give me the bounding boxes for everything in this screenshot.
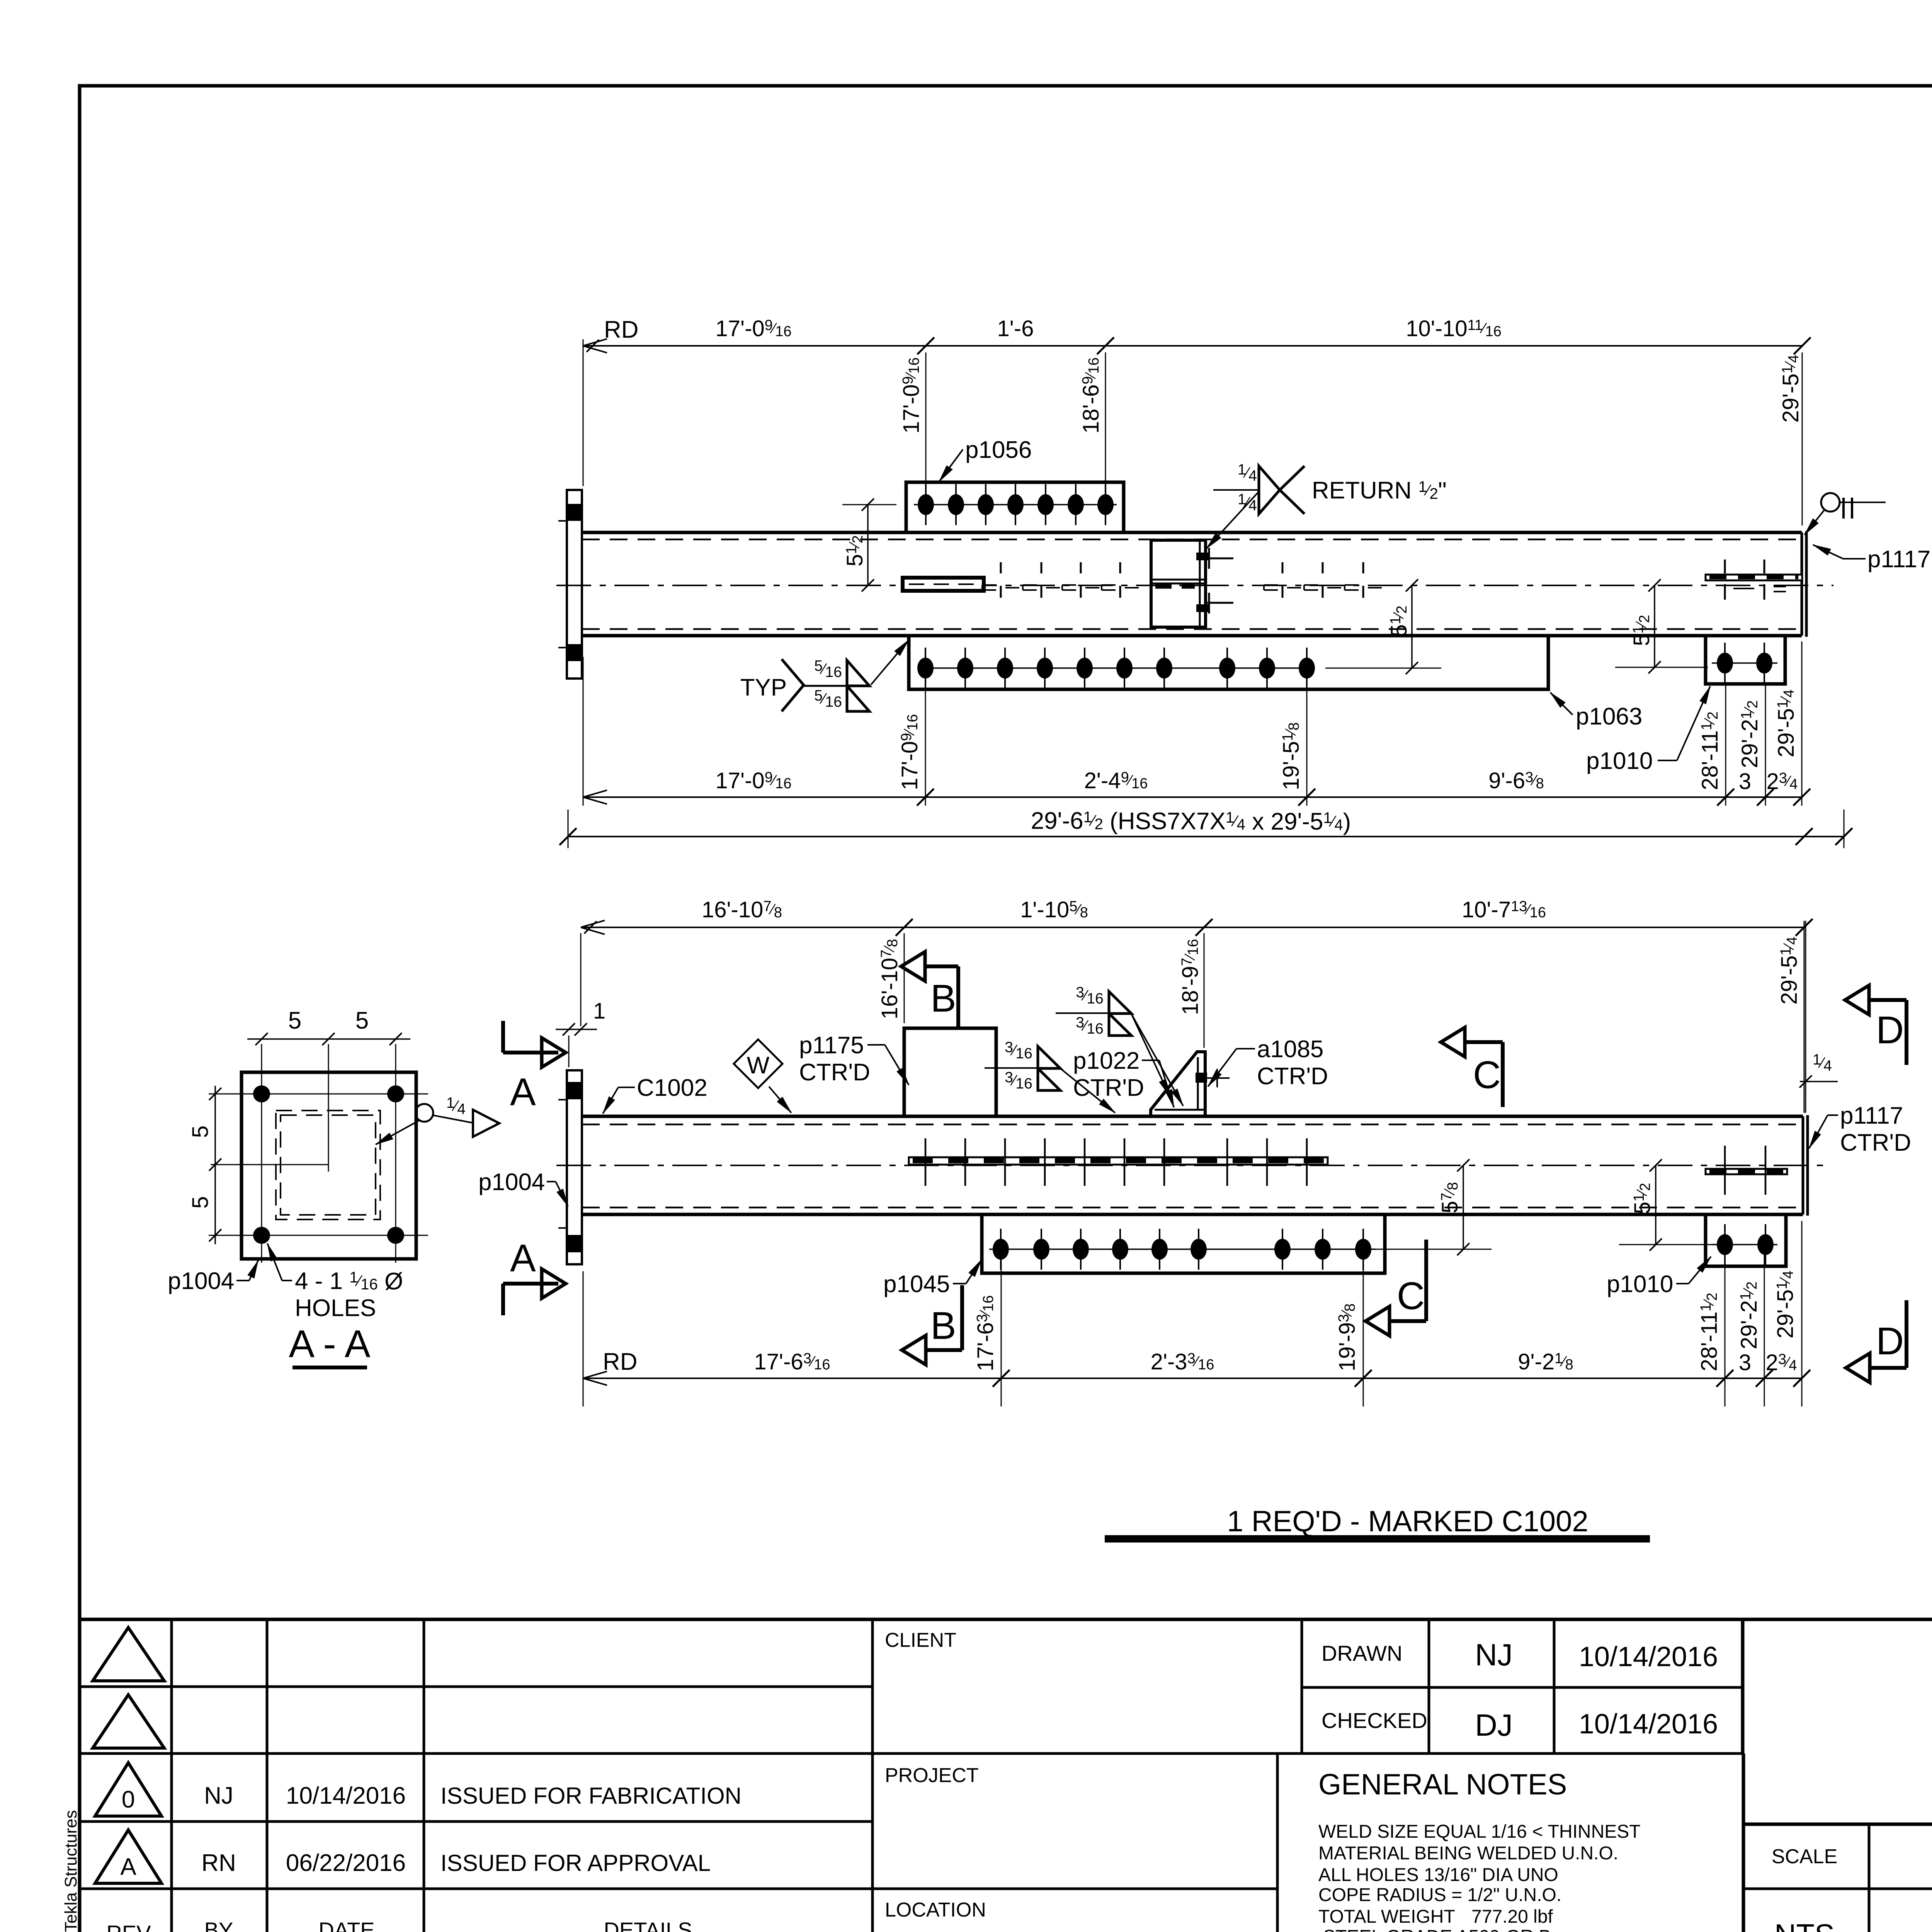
top view: flange plate p1063 <box>909 636 1548 689</box>
front view top dimension line 16'-10 7/8 / 1'-10 5/8 / 10'-7 13/16 <box>581 919 1813 1113</box>
label p1045 <box>883 1260 981 1298</box>
svg-text:p1010: p1010 <box>1586 748 1653 774</box>
top view dimension line RD / 17'-0 9/16 / 1'-6 / 10'-10 11/16 <box>583 337 1811 526</box>
svg-text:A - A: A - A <box>289 1322 371 1366</box>
dim text 17'-0 9/16 (top) <box>716 316 792 341</box>
front view: plate p1010 <box>1706 1214 1786 1266</box>
front view: HSS member C1002 body outline <box>582 1116 1803 1214</box>
dim text 10'-10 11/16 <box>1406 316 1502 341</box>
checked row <box>1321 1708 1718 1742</box>
dim 5 1/2 at p1010 (front view) <box>1619 1159 1712 1251</box>
section arrow B (bottom) <box>902 1285 962 1365</box>
svg-text:10/14/2016: 10/14/2016 <box>286 1782 406 1809</box>
front view: clip angle a1085 <box>1151 1052 1230 1115</box>
svg-text:RD: RD <box>603 1349 638 1375</box>
revision triangle row 2 <box>93 1695 164 1748</box>
svg-text:p1117: p1117 <box>1867 546 1930 573</box>
revision row A entries <box>201 1850 711 1876</box>
svg-text:TYP: TYP <box>740 674 787 701</box>
section A-A title <box>289 1322 371 1369</box>
svg-text:5: 5 <box>355 1007 369 1034</box>
svg-text:CTR'D: CTR'D <box>1073 1075 1144 1101</box>
dim 1/4 at p1117 <box>1799 1051 1838 1088</box>
section A-A weld all-around 1/4 symbol <box>376 1095 499 1145</box>
svg-text:B: B <box>930 1304 956 1347</box>
required-marked note <box>1105 1505 1650 1543</box>
dim 5 1/2 at p1010 (top view) <box>1615 579 1708 673</box>
dim text 17'-6 3/16 <box>754 1349 830 1374</box>
rotated dim 19'-5 1/8 <box>1279 722 1304 790</box>
weld symbol TYP 5/16 5/16 <box>740 640 909 711</box>
svg-text:D: D <box>1876 1320 1904 1363</box>
overall dimension 29'-6 1/2 (HSS7X7X1/4 x 29'-5 1/4) <box>560 808 1852 848</box>
label p1063 <box>1550 692 1642 730</box>
svg-text:HOLES: HOLES <box>295 1295 376 1321</box>
dim text 2'-4 9/16 <box>1084 768 1148 793</box>
label p1022 CTR'D <box>1073 1048 1174 1107</box>
svg-text:CHECKED: CHECKED <box>1321 1708 1427 1733</box>
revision triangle row 1 <box>93 1628 164 1681</box>
svg-text:COPE RADIUS = 1/2" U.N.O.: COPE RADIUS = 1/2" U.N.O. <box>1318 1885 1561 1905</box>
revision header row <box>106 1918 692 1932</box>
front view: end cap plate p1117 edge <box>1803 1115 1808 1216</box>
weld symbol 3/16 3/16 left <box>985 1039 1115 1113</box>
front view: plate p1045 <box>982 1214 1385 1273</box>
dim text 1'-10 5/8 <box>1020 897 1088 922</box>
top view: hidden clip a1085/p1022 <box>1151 540 1233 627</box>
svg-text:777.20 lbf: 777.20 lbf <box>1471 1906 1553 1927</box>
weld symbol 3/16 3/16 upper <box>1056 984 1183 1106</box>
front view: member centerline <box>556 1165 1832 1166</box>
svg-text:1: 1 <box>593 998 605 1024</box>
label a1085 CTR'D <box>1208 1036 1328 1090</box>
rotated dim 17'-0 9/16 <box>899 357 924 434</box>
section arrow D (top) <box>1845 985 1906 1065</box>
dim 5 7/8 at p1045 <box>1376 1159 1492 1255</box>
svg-text:5: 5 <box>188 1126 213 1138</box>
section A-A left dimension 5 / 5 <box>188 1086 221 1244</box>
rotated dim 17'-6 3/16 (lower) <box>973 1295 998 1371</box>
tekla structures watermark <box>61 1810 80 1932</box>
top view: member centerline <box>556 585 1833 586</box>
svg-text:NTS: NTS <box>1774 1918 1835 1932</box>
top view: hidden bolt ticks on centerline <box>982 562 1382 598</box>
dim 5 1/2 at p1056 <box>842 498 896 592</box>
general notes <box>1318 1768 1641 1932</box>
weld symbol 1/4 1/4 RETURN 1/2" <box>1206 461 1447 549</box>
svg-text:p1022: p1022 <box>1073 1048 1139 1074</box>
top view: end plate p1004 (edge-on) <box>558 490 582 679</box>
scale value NTS <box>1774 1918 1835 1932</box>
front view: plate p1175 <box>904 1028 996 1116</box>
front view: hidden side plates bar (p1056/p1063) <box>909 1138 1328 1186</box>
svg-text:CLIENT: CLIENT <box>885 1629 956 1651</box>
svg-text:DATE: DATE <box>318 1918 374 1932</box>
rotated dim 29'-5 1/4 (front lower) <box>1773 1270 1798 1338</box>
dim text 17'-0 9/16 (bottom) <box>716 768 792 793</box>
dim 5 1/2 at p1063 <box>1325 579 1441 674</box>
dim text 3 <box>1739 769 1751 794</box>
rotated dim 29'-2 1/2 <box>1737 700 1762 768</box>
svg-text:ISSUED FOR FABRICATION: ISSUED FOR FABRICATION <box>440 1783 742 1809</box>
label p1056 <box>939 437 1032 482</box>
svg-text:1 REQ'D - MARKED C1002: 1 REQ'D - MARKED C1002 <box>1227 1505 1588 1538</box>
svg-text:1'-6: 1'-6 <box>997 316 1034 341</box>
svg-text:10/14/2016: 10/14/2016 <box>1579 1641 1718 1672</box>
svg-text:ISSUED FOR APPROVAL: ISSUED FOR APPROVAL <box>440 1850 711 1876</box>
dim text 2 3/4 (front) <box>1766 1350 1797 1375</box>
drawn row <box>1321 1638 1718 1672</box>
svg-text:C1002: C1002 <box>637 1075 707 1101</box>
dim text 1'-6 <box>997 316 1034 341</box>
label p1175 CTR'D <box>799 1032 909 1086</box>
svg-text:Tekla Structures: Tekla Structures <box>61 1810 80 1932</box>
svg-text:p1010: p1010 <box>1607 1271 1673 1298</box>
rotated dim 29'-5 1/4 (top right) <box>1778 355 1803 423</box>
svg-text:3: 3 <box>1739 769 1751 794</box>
svg-text:4 - 1 1⁄16 Ø: 4 - 1 1⁄16 Ø <box>295 1268 403 1295</box>
svg-text:p1063: p1063 <box>1576 703 1642 730</box>
rotated dim 28'-11 1/2 (front) <box>1697 1293 1722 1371</box>
rotated dim 28'-11 1/2 <box>1697 711 1723 790</box>
rotated dim 16'-10 7/8 <box>877 939 902 1019</box>
front view bottom dimension line RD / 17'-6 3/16 / 2'-3 3/16 / 9'-2 1/8 <box>583 1221 1810 1406</box>
svg-text:ALL HOLES 13/16" DIA UNO: ALL HOLES 13/16" DIA UNO <box>1318 1865 1558 1885</box>
top view: end cap plate p1117 edge <box>1802 531 1806 637</box>
svg-text:p1175: p1175 <box>799 1032 864 1059</box>
svg-text:NJ: NJ <box>204 1782 233 1809</box>
dim text RD (front) <box>603 1349 638 1375</box>
svg-text:GENERAL NOTES: GENERAL NOTES <box>1318 1768 1567 1801</box>
top view: hidden plate p1175 bar <box>903 578 984 591</box>
dim text 9'-6 3/8 <box>1488 768 1544 793</box>
title block grid <box>80 1619 1932 1932</box>
rotated dim 18'-6 9/16 <box>1078 357 1104 434</box>
W weld diamond <box>734 1039 791 1113</box>
top view: hidden p1010 bar and bolt ticks <box>1706 560 1802 600</box>
svg-text:CTR'D: CTR'D <box>799 1059 870 1086</box>
svg-text:DJ: DJ <box>1475 1708 1513 1742</box>
svg-text:D: D <box>1876 1009 1904 1052</box>
label p1010 (front view) <box>1607 1257 1711 1298</box>
dim text 10'-7 13/16 <box>1462 897 1546 922</box>
svg-text:A: A <box>510 1236 536 1280</box>
svg-text:NJ: NJ <box>1475 1638 1513 1672</box>
location cell <box>885 1899 1122 1932</box>
svg-text:p1117: p1117 <box>1840 1102 1903 1129</box>
label p1010 (top view) <box>1586 686 1710 774</box>
section A-A label p1004 <box>168 1260 258 1294</box>
svg-text:REV: REV <box>106 1921 151 1932</box>
field weld circle at p1117 <box>1804 493 1886 535</box>
section arrow C (bottom) <box>1366 1240 1426 1336</box>
svg-text:TOTAL WEIGHT: TOTAL WEIGHT <box>1318 1906 1455 1927</box>
front view: hidden wall dashed lines <box>582 1124 1803 1207</box>
svg-text:BY: BY <box>204 1918 233 1932</box>
dim text 3 (front) <box>1739 1350 1751 1375</box>
svg-text:A: A <box>510 1070 536 1114</box>
svg-text:RN: RN <box>201 1850 236 1876</box>
client cell <box>885 1629 956 1651</box>
svg-text:WELD SIZE EQUAL 1/16 < THINNES: WELD SIZE EQUAL 1/16 < THINNEST <box>1318 1821 1641 1842</box>
svg-text:CTR'D: CTR'D <box>1257 1063 1328 1090</box>
label p1004 (front view) <box>478 1169 568 1206</box>
svg-text:3: 3 <box>1739 1350 1751 1375</box>
svg-text:MATERIAL BEING WELDED U.N.O.: MATERIAL BEING WELDED U.N.O. <box>1318 1843 1618 1864</box>
revision triangle 0 <box>95 1763 162 1816</box>
section arrow D (bottom) <box>1846 1300 1906 1383</box>
section arrow A (top) <box>503 1021 566 1114</box>
dim text 16'-10 7/8 <box>702 897 782 922</box>
svg-text:DRAWN: DRAWN <box>1321 1641 1402 1665</box>
svg-text:A: A <box>120 1854 136 1880</box>
svg-text:W: W <box>747 1052 770 1079</box>
label p1117 CTR'D <box>1809 1102 1911 1156</box>
svg-text:29'-61⁄2 (HSS7X7X1⁄4 x 29'-51⁄: 29'-61⁄2 (HSS7X7X1⁄4 x 29'-51⁄4) <box>1031 808 1351 835</box>
svg-text:SCALE: SCALE <box>1772 1845 1838 1868</box>
front view: end plate p1004 (edge-on) <box>558 1070 582 1264</box>
svg-text:p1004: p1004 <box>168 1268 234 1294</box>
rotated dim 19'-9 3/8 <box>1335 1303 1360 1371</box>
revision row 0 entries <box>204 1782 742 1809</box>
label C1002 <box>603 1075 707 1114</box>
svg-text:p1056: p1056 <box>965 437 1032 463</box>
top view: hidden wall dashed lines <box>582 539 1802 629</box>
svg-text:C: C <box>1473 1053 1501 1097</box>
rotated dim 29'-5 1/4 (front top) <box>1777 937 1802 1005</box>
svg-text:p1045: p1045 <box>883 1271 950 1298</box>
label p1117 (top view) <box>1813 545 1930 573</box>
dim text 2'-3 3/16 <box>1151 1349 1214 1374</box>
scale job dwg rev header labels <box>1772 1845 1932 1868</box>
svg-text:5: 5 <box>188 1196 213 1209</box>
top view bottom dimension line 17'-0 9/16 / 2'-4 9/16 / 9'-6 3/8 <box>583 641 1810 806</box>
svg-text:5: 5 <box>288 1007 301 1034</box>
dim 1 at member end <box>556 998 605 1067</box>
svg-text:06/22/2016: 06/22/2016 <box>286 1850 406 1876</box>
svg-text:RD: RD <box>604 316 639 343</box>
section A-A hidden HSS outline (dashed) <box>276 1111 380 1219</box>
section A-A top dimension 5 / 5 <box>247 1007 410 1045</box>
svg-text:DETAILS: DETAILS <box>604 1918 692 1932</box>
rotated dim 17'-0 9/16 (lower) <box>897 714 922 790</box>
svg-text:0: 0 <box>122 1786 135 1813</box>
rotated dim 29'-5 1/4 (lower) <box>1774 689 1799 757</box>
svg-text:PROJECT: PROJECT <box>885 1764 979 1787</box>
section arrow C (top) <box>1441 1027 1503 1107</box>
dim text 9'-2 1/8 <box>1518 1349 1573 1374</box>
rotated dim 29'-2 1/2 (front) <box>1736 1281 1762 1349</box>
dim text 2 3/4 <box>1767 769 1798 794</box>
svg-text:B: B <box>930 977 956 1020</box>
svg-text:CTR'D: CTR'D <box>1840 1129 1911 1156</box>
svg-text:LOCATION: LOCATION <box>885 1899 986 1921</box>
dim text RD <box>604 316 639 343</box>
section A-A bolt holes <box>209 1044 428 1263</box>
section arrow A (bottom) <box>503 1236 566 1315</box>
svg-text:a1085: a1085 <box>1257 1036 1323 1063</box>
rotated dim 18'-9 7/16 <box>1178 939 1203 1015</box>
top view: plate p1010 <box>1706 636 1785 684</box>
svg-text:p1004: p1004 <box>478 1169 545 1196</box>
section arrow B (top) <box>901 952 958 1028</box>
section A-A end plate p1004 <box>241 1072 416 1259</box>
svg-text:STEEL GRADE A500-GR.B: STEEL GRADE A500-GR.B <box>1323 1927 1551 1932</box>
project cell <box>885 1764 979 1787</box>
svg-text:C: C <box>1397 1274 1425 1318</box>
front view: hidden p1010 bar <box>1706 1146 1787 1195</box>
top view: flange plate p1056 <box>906 482 1124 532</box>
section A-A label 4 - 1 1/16 dia holes <box>267 1243 403 1321</box>
svg-text:10/14/2016: 10/14/2016 <box>1579 1709 1718 1740</box>
revision triangle A <box>95 1830 162 1883</box>
top view: HSS member C1002 body outline <box>582 532 1802 636</box>
